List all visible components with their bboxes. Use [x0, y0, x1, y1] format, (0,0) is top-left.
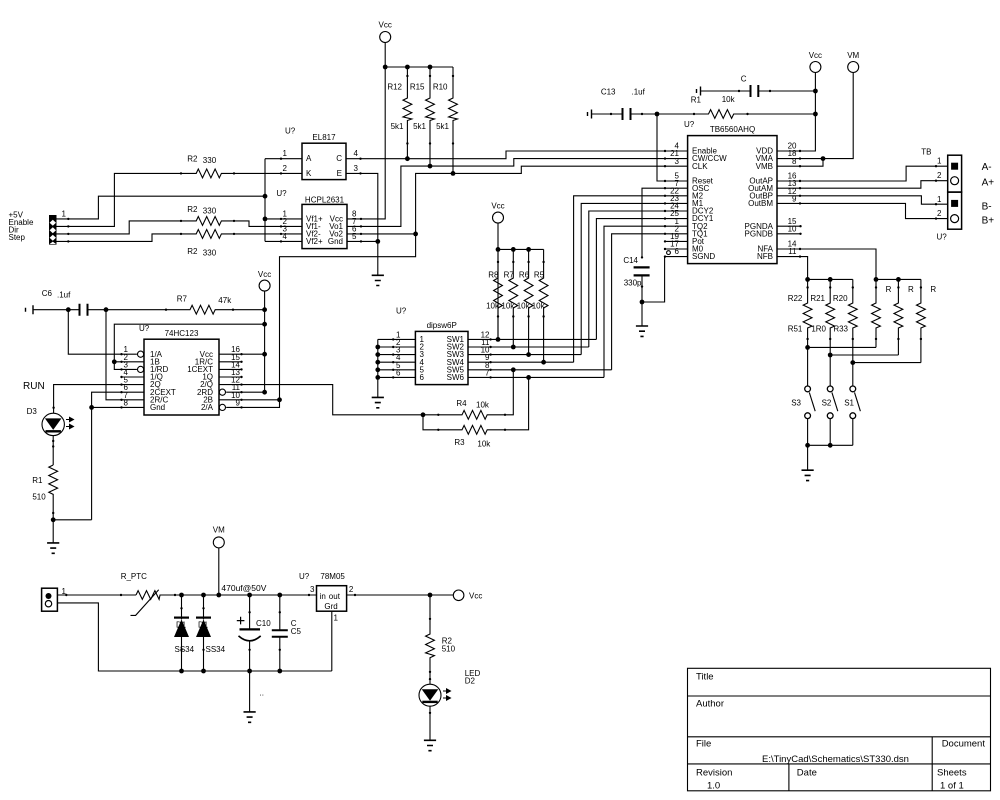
svg-text:1.0: 1.0	[707, 781, 720, 792]
svg-text:1: 1	[937, 195, 942, 204]
pin stubs dipsw left + common bus	[375, 338, 415, 397]
capacitor C5	[272, 595, 302, 671]
wire Vcc pin 16	[219, 353, 265, 355]
svg-text:R6: R6	[519, 270, 530, 279]
wire pull-up bus	[498, 247, 544, 252]
wire R2 out to HCPL Vf2-	[234, 233, 302, 235]
wire OutAM to TB pin2	[800, 180, 948, 189]
wire DCY2 to SW2	[589, 211, 665, 347]
svg-text:VMB: VMB	[756, 162, 773, 171]
svg-text:Vcc: Vcc	[469, 591, 482, 600]
svg-text:..: ..	[260, 689, 264, 698]
wire power pin2 to ground rail	[57, 603, 331, 673]
node RUN label	[23, 381, 45, 392]
svg-text:2: 2	[937, 171, 942, 180]
svg-text:S3: S3	[791, 399, 801, 408]
svg-text:.1uf: .1uf	[57, 291, 71, 300]
svg-text:A-: A-	[982, 162, 992, 173]
capacitor C14 330p	[623, 256, 649, 302]
svg-text:R2: R2	[187, 205, 198, 214]
svg-text:E:\TinyCad\Schematics\ST330.ds: E:\TinyCad\Schematics\ST330.dsn	[762, 754, 909, 765]
power Vcc (74HC123)	[258, 270, 271, 291]
resistor R5 10k	[532, 249, 548, 362]
pin stubs TB6560 left	[664, 150, 688, 258]
pin M0 no-connect bubble	[667, 251, 671, 255]
wire Vcc riser to SW1	[496, 223, 501, 342]
svg-text:S2: S2	[822, 399, 832, 408]
ground (dipsw common)	[372, 397, 384, 407]
svg-text:U?: U?	[139, 324, 150, 333]
svg-text:Vcc: Vcc	[258, 270, 271, 279]
svg-text:3: 3	[310, 585, 315, 594]
connector J1 4-pin input header	[49, 209, 67, 244]
svg-text:R: R	[908, 285, 914, 294]
svg-text:D1: D1	[176, 621, 187, 630]
power Vcc top	[379, 21, 392, 43]
wire Gnd pin row	[92, 406, 144, 408]
svg-text:1R0: 1R0	[811, 324, 826, 333]
wire RUN / 2Q to LED D3	[52, 383, 144, 413]
ground (switches)	[802, 445, 814, 480]
node R4/R3 left junction	[421, 412, 426, 417]
svg-text:U?: U?	[684, 120, 695, 129]
wire HCPL pin4 Vf2+	[265, 240, 302, 242]
svg-text:R7: R7	[177, 295, 188, 304]
svg-text:Vcc: Vcc	[379, 21, 392, 30]
wire C6 left to 1/A	[68, 310, 137, 356]
svg-text:File: File	[696, 739, 711, 750]
node C14/SGND junction	[640, 300, 645, 305]
svg-text:2: 2	[937, 209, 942, 218]
title block texts	[696, 671, 985, 791]
resistor R20 R33	[833, 279, 857, 362]
svg-text:10k: 10k	[722, 95, 736, 104]
wire NFB to sense bus	[800, 257, 808, 280]
svg-text:5: 5	[352, 232, 357, 241]
connector TB terminal block A	[921, 147, 961, 192]
svg-text:330p: 330p	[624, 279, 642, 288]
svg-text:C10: C10	[256, 619, 271, 628]
svg-text:1 of 1: 1 of 1	[940, 781, 964, 792]
svg-text:Date: Date	[797, 768, 817, 779]
wire OSC to C14	[642, 188, 665, 257]
svg-text:C6: C6	[42, 289, 53, 298]
wire TQ2 to SW6	[604, 226, 665, 377]
svg-text:5k1: 5k1	[391, 122, 404, 131]
wire sense bus A	[874, 277, 921, 282]
pin stubs 74HC123 right side (15,14,13)	[219, 361, 243, 379]
svg-text:C: C	[336, 154, 342, 163]
svg-text:5k1: 5k1	[413, 122, 426, 131]
node A+ label	[982, 178, 995, 189]
svg-text:R3: R3	[454, 438, 465, 447]
svg-text:NFB: NFB	[757, 252, 773, 261]
wire main +VM rail	[175, 593, 317, 598]
svg-text:8: 8	[124, 398, 129, 407]
svg-text:Sheets: Sheets	[937, 768, 967, 779]
svg-text:OutBM: OutBM	[748, 199, 773, 208]
switch S1	[844, 363, 860, 419]
svg-text:TB6560AHQ: TB6560AHQ	[710, 125, 755, 134]
resistor R1 510	[32, 465, 57, 520]
svg-text:R2: R2	[187, 154, 198, 163]
power Vcc (5V output)	[453, 590, 482, 601]
wire 2RD pin 11 to Vcc column	[226, 391, 264, 393]
svg-text:6: 6	[420, 373, 425, 382]
svg-text:2: 2	[349, 585, 354, 594]
svg-text:Title: Title	[696, 671, 714, 682]
wire SW6 row	[468, 375, 604, 380]
svg-text:SS34: SS34	[206, 645, 226, 654]
svg-text:R12: R12	[387, 83, 402, 92]
node A- label	[982, 162, 992, 173]
wire EL817 C to TB6560 Enable	[346, 151, 665, 161]
svg-text:D2: D2	[465, 677, 476, 686]
svg-text:R: R	[930, 285, 936, 294]
resistor R12 5k1	[387, 67, 411, 159]
svg-text:5k1: 5k1	[436, 122, 449, 131]
resistor R8 10k	[486, 249, 502, 339]
node Enable label	[9, 218, 34, 227]
diode D1 SS34 (a)	[174, 595, 195, 671]
svg-text:R8: R8	[488, 270, 499, 279]
wire Vcc to 1B and 1/RD	[112, 324, 265, 370]
svg-text:4: 4	[354, 149, 359, 158]
connector J2 power input	[42, 587, 67, 611]
wire HCPL pin1 Vf1+	[265, 218, 302, 220]
svg-text:B-: B-	[982, 201, 992, 212]
svg-text:B+: B+	[982, 216, 995, 227]
resistor R2 330 (Step row)	[180, 230, 235, 258]
connector TB terminal block B	[937, 192, 962, 241]
capacitor C	[697, 75, 816, 98]
svg-text:330: 330	[203, 206, 217, 215]
svg-text:dipsw6P: dipsw6P	[427, 321, 457, 330]
LED D2	[419, 669, 480, 706]
svg-text:1: 1	[334, 614, 339, 623]
svg-text:4: 4	[283, 232, 288, 241]
wire M2 to SW4	[574, 196, 665, 362]
svg-text:HCPL2631: HCPL2631	[305, 195, 345, 204]
wire SW5 row	[468, 367, 612, 372]
switch S2	[822, 355, 838, 419]
svg-text:510: 510	[442, 644, 456, 653]
resistor R4 10k	[423, 370, 513, 419]
svg-text:PGNDB: PGNDB	[745, 229, 773, 238]
svg-text:2/A: 2/A	[201, 403, 214, 412]
svg-text:10k: 10k	[517, 301, 531, 310]
svg-text:R1: R1	[32, 476, 43, 485]
svg-text:Revision: Revision	[696, 768, 732, 779]
wire Vcc column	[262, 291, 267, 395]
wire HCPL Gnd to ground node	[347, 239, 380, 244]
capacitor C13 .1uf	[588, 87, 658, 120]
svg-text:330: 330	[203, 248, 217, 257]
svg-text:A+: A+	[982, 178, 995, 189]
svg-text:330: 330	[203, 156, 217, 165]
resistor R6 10k	[517, 249, 533, 354]
wire SGND to junction	[642, 257, 665, 302]
resistor R7 47k	[106, 295, 265, 315]
svg-text:R1: R1	[691, 95, 702, 104]
wire pair bus row1	[805, 345, 876, 350]
svg-text:RUN: RUN	[23, 381, 45, 392]
power VM (TB6560)	[847, 51, 859, 73]
svg-text:CLK: CLK	[692, 162, 708, 171]
svg-text:510: 510	[32, 492, 46, 501]
svg-text:Gnd: Gnd	[328, 237, 343, 246]
wire power pin1 row	[57, 594, 136, 596]
wire EL817 E to ground	[346, 172, 378, 275]
node C6 right / R7 junction	[104, 307, 109, 312]
svg-text:SS34: SS34	[175, 645, 195, 654]
IC U? dipsw6P	[396, 306, 490, 384]
svg-text:1: 1	[937, 157, 942, 166]
wire DCY1 to SW1	[596, 219, 665, 340]
svg-text:EL817: EL817	[312, 133, 336, 142]
node C13/R1/Reset junction	[655, 112, 660, 117]
wire Vo2 node down to 74HC123 2B/2A	[226, 234, 415, 408]
svg-text:R: R	[886, 285, 892, 294]
svg-text:R_PTC: R_PTC	[121, 572, 147, 581]
power Vcc (TB6560)	[809, 51, 822, 73]
svg-text:3: 3	[354, 164, 359, 173]
regulator U? 78M05	[299, 572, 354, 622]
svg-text:R10: R10	[433, 83, 448, 92]
svg-text:D3: D3	[27, 407, 38, 416]
svg-text:R7: R7	[504, 270, 515, 279]
resistor R2 330 (Enable row)	[180, 154, 235, 177]
svg-text:47k: 47k	[218, 296, 232, 305]
svg-text:Vcc: Vcc	[491, 202, 504, 211]
wire R2 out to EL817 K	[234, 172, 302, 174]
wire OutAP to TB pin1	[800, 165, 948, 181]
svg-text:R4: R4	[456, 399, 467, 408]
wire Enable pin2 to riser	[57, 173, 182, 227]
wire pair bus row2	[828, 353, 899, 358]
wire OutBM to TB pin2 (B)	[800, 203, 948, 219]
wire +5V vertical bus at x=265	[263, 159, 268, 242]
wire switch common bus	[805, 419, 853, 448]
ground (EL817/HCPL)	[372, 275, 384, 285]
svg-text:C14: C14	[623, 256, 638, 265]
wire EL817 pin1 A	[265, 158, 302, 160]
resistor R2 510	[426, 595, 456, 684]
pin stub 1/Q	[120, 376, 144, 378]
svg-text:R22: R22	[788, 294, 803, 303]
ground (LED D2)	[424, 706, 436, 751]
svg-text:Step: Step	[9, 233, 26, 242]
wire HCPL Vo1 to TB6560 CW/CCW	[347, 159, 665, 228]
LED D3	[27, 407, 74, 465]
node Dir label	[9, 226, 20, 235]
resistor R7 10k	[501, 249, 517, 347]
resistor R3 10k	[423, 377, 529, 448]
node B- label	[982, 201, 992, 212]
resistor R (A2)	[894, 279, 914, 355]
svg-text:R33: R33	[833, 324, 848, 333]
diode D1 SS34 (b)	[196, 595, 226, 671]
IC U? 74HC123	[124, 324, 241, 415]
wire 2/Q pin 12 to R4/R3 node	[219, 383, 423, 414]
capacitor C10 470uf@50V	[221, 583, 271, 671]
svg-text:U?: U?	[937, 233, 948, 242]
svg-text:C13: C13	[601, 87, 616, 96]
svg-text:Grd: Grd	[324, 602, 337, 611]
svg-text:C5: C5	[291, 627, 302, 636]
svg-text:out: out	[329, 592, 341, 601]
resistor R22 R51	[788, 279, 812, 347]
svg-text:U?: U?	[396, 306, 407, 315]
svg-text:Author: Author	[696, 698, 724, 709]
svg-text:.1uf: .1uf	[632, 87, 646, 96]
svg-text:U?: U?	[299, 572, 310, 581]
wire SW4 row	[468, 360, 574, 365]
resistor R2 330 (Dir row)	[180, 205, 235, 225]
svg-text:TB: TB	[921, 147, 931, 156]
svg-text:Document: Document	[942, 739, 986, 750]
svg-text:K: K	[306, 169, 312, 178]
svg-text:U?: U?	[276, 189, 287, 198]
switch S3	[791, 347, 815, 418]
wire Vcc bus to resistors	[385, 65, 453, 70]
svg-text:9: 9	[236, 398, 241, 407]
capacitor C6 .1uf	[26, 289, 107, 316]
svg-text:R21: R21	[810, 294, 825, 303]
svg-text:Vcc: Vcc	[809, 51, 822, 60]
wire NFA to sense bus	[800, 249, 876, 279]
wire VM riser to VMA/VMB	[800, 73, 853, 167]
wire M1 to SW3	[581, 203, 665, 354]
resistor R21 1R0	[810, 279, 834, 355]
optocoupler U? HCPL2631	[276, 189, 357, 249]
svg-text:10k: 10k	[501, 301, 515, 310]
title block frame	[688, 668, 991, 791]
svg-text:10k: 10k	[476, 400, 490, 409]
svg-text:10k: 10k	[477, 440, 491, 449]
wire Step pin4 to riser	[57, 234, 182, 243]
resistor R (A3)	[917, 279, 937, 362]
wire C6 right to 2R/C	[106, 310, 144, 401]
svg-text:10k: 10k	[532, 301, 546, 310]
wire R2 out to HCPL Vf1-	[234, 221, 302, 228]
power VM (supply)	[213, 525, 225, 595]
thermistor R_PTC	[121, 572, 177, 615]
svg-text:74HC123: 74HC123	[165, 329, 199, 338]
svg-text:VM: VM	[847, 51, 859, 60]
svg-text:SGND: SGND	[692, 252, 715, 261]
wire SW3 row	[468, 352, 581, 357]
svg-text:Gnd: Gnd	[150, 403, 165, 412]
svg-text:SW6: SW6	[447, 373, 465, 382]
ground (R1/D3)	[47, 520, 59, 554]
wire 78M05 Grd to ground rail	[331, 611, 333, 671]
svg-text:R15: R15	[410, 83, 425, 92]
wire 2CEXT to Gnd rail	[89, 391, 144, 520]
wire TQ1 to SW5	[612, 234, 665, 370]
svg-text:R51: R51	[788, 324, 803, 333]
IC U? TB6560AHQ	[670, 120, 797, 264]
svg-text:2: 2	[283, 164, 288, 173]
svg-text:D1: D1	[198, 621, 209, 630]
op-to-coupler U? EL817	[283, 127, 359, 180]
node Vcc / R2 junction	[428, 593, 433, 598]
wire junction to Reset pin	[657, 114, 665, 181]
wire Dir pin3 to riser	[57, 221, 182, 235]
wire SW1 row	[468, 338, 596, 340]
svg-text:in: in	[320, 592, 326, 601]
resistor R15 5k1	[410, 67, 435, 166]
svg-text:1: 1	[62, 209, 67, 218]
node +5V label	[9, 211, 24, 220]
svg-text:C: C	[741, 75, 747, 84]
svg-text:78M05: 78M05	[320, 572, 345, 581]
svg-text:U?: U?	[285, 127, 296, 136]
wire OutBP to TB pin1 (B)	[800, 196, 948, 206]
svg-text:A: A	[306, 154, 312, 163]
svg-text:S1: S1	[844, 399, 854, 408]
wire 2B row	[219, 399, 280, 401]
svg-text:1: 1	[283, 149, 288, 158]
wire HCPL Vo2 to TB6560 CLK	[347, 166, 665, 236]
pin stubs TB6560 right	[777, 150, 802, 258]
wire +5V pin1 to riser	[57, 196, 266, 220]
wire SW2 row	[468, 345, 589, 350]
svg-text:R5: R5	[534, 270, 545, 279]
node B+ label	[982, 216, 995, 227]
svg-text:E: E	[337, 169, 342, 178]
svg-text:10k: 10k	[486, 301, 500, 310]
node Step label	[9, 233, 26, 242]
wire Vcc riser to VDD	[800, 73, 818, 152]
ground (main filter)	[244, 671, 264, 722]
svg-text:R2: R2	[187, 247, 198, 256]
wire Vcc riser to HCPL Vcc pin	[347, 43, 388, 221]
wire sense bus B	[805, 277, 853, 282]
wire pair bus row3	[850, 360, 921, 365]
node R1 bottom junction	[51, 517, 92, 522]
svg-text:R20: R20	[833, 294, 848, 303]
power Vcc (dipsw)	[491, 202, 504, 224]
svg-text:VM: VM	[213, 525, 225, 534]
resistor R1 10k	[657, 95, 815, 118]
wire 78M05 out to Vcc	[347, 594, 454, 596]
svg-text:Vf2+: Vf2+	[306, 237, 323, 246]
resistor R (A1)	[872, 279, 892, 347]
svg-text:470uf@50V: 470uf@50V	[221, 583, 266, 593]
resistor R10 5k1	[433, 67, 458, 173]
ground (C14)	[636, 302, 648, 336]
pin stub 2/A	[240, 406, 242, 408]
